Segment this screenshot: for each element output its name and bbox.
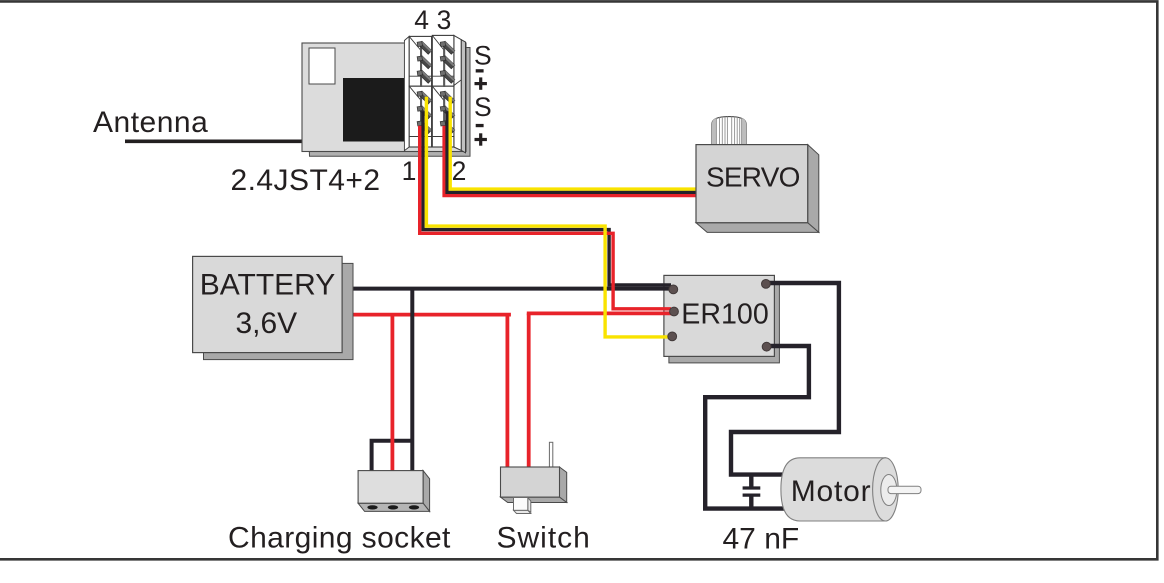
svg-text:Antenna: Antenna	[93, 106, 208, 139]
svg-text:S: S	[474, 41, 492, 71]
svg-text:3: 3	[437, 5, 452, 35]
svg-text:2: 2	[452, 156, 467, 186]
svg-text:Charging socket: Charging socket	[228, 522, 451, 555]
svg-text:1: 1	[402, 156, 417, 186]
svg-text:ER100: ER100	[681, 299, 768, 331]
svg-text:4: 4	[414, 5, 429, 35]
svg-text:3,6V: 3,6V	[235, 307, 297, 340]
svg-text:S: S	[474, 92, 492, 122]
svg-text:Switch: Switch	[497, 522, 591, 555]
svg-text:2.4JST4+2: 2.4JST4+2	[231, 164, 381, 197]
svg-text:Motor: Motor	[791, 475, 872, 508]
svg-text:SERVO: SERVO	[706, 162, 800, 193]
svg-text:47 nF: 47 nF	[723, 523, 800, 556]
svg-text:BATTERY: BATTERY	[200, 268, 336, 301]
